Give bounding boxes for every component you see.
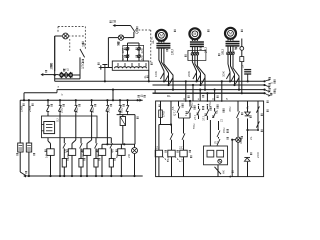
node bbox=[206, 92, 208, 94]
contact 3ZC bbox=[121, 54, 129, 61]
label U bbox=[270, 82, 274, 84]
label 2YH bbox=[208, 102, 212, 107]
wire bbox=[159, 48, 173, 90]
lamp HL1 bbox=[63, 33, 69, 39]
label 2XD bbox=[256, 151, 260, 158]
contact 2SJ bbox=[58, 100, 63, 176]
wire bbox=[241, 62, 243, 94]
capacitor 1RB bbox=[18, 143, 23, 152]
branch wire bbox=[19, 100, 21, 143]
label specks tl bbox=[45, 42, 84, 72]
terminal arrow bbox=[41, 73, 59, 76]
control rail bottom bbox=[27, 175, 143, 177]
label specks coils bbox=[165, 151, 193, 158]
svg-text:2B: 2B bbox=[112, 20, 117, 24]
resistor 3R bbox=[94, 138, 99, 176]
node bbox=[28, 175, 136, 177]
wire bbox=[248, 129, 260, 131]
label specks cluster bbox=[182, 104, 225, 118]
drop wire bbox=[214, 90, 216, 101]
label specks drops bbox=[159, 96, 219, 107]
label 2DK bbox=[187, 71, 191, 77]
heater FR3 bbox=[226, 42, 240, 46]
label 4YH bbox=[228, 107, 232, 112]
coil 5CJ bbox=[118, 149, 125, 156]
label specks bus end bbox=[269, 78, 276, 96]
node bbox=[263, 80, 265, 94]
svg-text:2ZJ: 2ZJ bbox=[180, 156, 184, 162]
label 4L bbox=[140, 94, 144, 98]
wire bbox=[247, 119, 249, 153]
transformer T2 winding bbox=[115, 63, 147, 68]
svg-text:DL: DL bbox=[167, 94, 171, 98]
svg-text:GZ: GZ bbox=[214, 141, 218, 145]
contact QTJ bbox=[172, 101, 180, 118]
svg-text:1ZJ: 1ZJ bbox=[166, 156, 170, 162]
contact 8SJ bbox=[256, 106, 259, 127]
contact ZJ1 bbox=[170, 131, 173, 150]
svg-text:TA: TA bbox=[171, 106, 175, 110]
bus N bbox=[153, 92, 265, 94]
label 1RJ bbox=[171, 49, 175, 55]
label 7L bbox=[246, 105, 250, 109]
fuse 2RD bbox=[120, 115, 125, 145]
node bbox=[189, 100, 191, 102]
node bbox=[54, 74, 56, 76]
node bbox=[246, 129, 248, 131]
label 5YH bbox=[192, 124, 196, 129]
label XD bbox=[117, 41, 121, 46]
control box bbox=[156, 101, 264, 177]
wire bbox=[160, 118, 162, 125]
svg-text:M: M bbox=[160, 33, 163, 37]
wire bbox=[209, 120, 211, 146]
svg-text:6L: 6L bbox=[150, 36, 154, 40]
svg-text:6YH: 6YH bbox=[222, 128, 226, 133]
node bbox=[170, 123, 172, 125]
wire bbox=[112, 89, 114, 102]
wire bbox=[171, 157, 173, 177]
contact group box bbox=[123, 45, 144, 61]
label 1TC bbox=[81, 62, 85, 69]
contact 4ZC bbox=[137, 54, 144, 61]
svg-text:6SJ: 6SJ bbox=[119, 107, 123, 113]
label 1ZJ bbox=[166, 156, 170, 162]
node bbox=[163, 80, 174, 90]
drop wire bbox=[221, 81, 223, 101]
node bbox=[185, 100, 223, 102]
svg-text:M: M bbox=[229, 31, 232, 35]
svg-text:4YH: 4YH bbox=[228, 107, 232, 112]
svg-text:2SJ: 2SJ bbox=[59, 107, 63, 113]
wire bbox=[107, 38, 109, 68]
contact 4TJ bbox=[213, 108, 216, 118]
motor M2 bbox=[189, 28, 200, 39]
wire bbox=[86, 155, 88, 176]
label 3 bbox=[212, 97, 214, 101]
label 2B bbox=[112, 20, 117, 24]
svg-text:SJ: SJ bbox=[56, 118, 60, 122]
svg-text:4SJ: 4SJ bbox=[91, 107, 95, 113]
svg-text:2DK: 2DK bbox=[187, 71, 191, 77]
contact 2C-1 bbox=[191, 46, 194, 55]
label 6YH bbox=[222, 128, 226, 133]
contact 4SJ bbox=[90, 100, 95, 140]
wire bbox=[247, 101, 249, 112]
wire bbox=[28, 152, 30, 176]
label 2C bbox=[66, 153, 70, 158]
label 0 bbox=[184, 97, 186, 101]
wire bbox=[50, 155, 52, 176]
control rail top bbox=[20, 99, 143, 101]
contact 2TJ bbox=[193, 106, 200, 120]
svg-text:7L: 7L bbox=[246, 105, 250, 109]
drop wire bbox=[185, 81, 187, 101]
label TA bbox=[171, 106, 175, 110]
transformer T2 box bbox=[112, 61, 149, 70]
svg-text:5SJ: 5SJ bbox=[107, 107, 111, 113]
wire bbox=[159, 125, 161, 151]
label 3DK bbox=[222, 71, 226, 77]
node bbox=[192, 84, 194, 86]
wire bbox=[120, 144, 122, 149]
switch SA2 bbox=[131, 26, 135, 38]
wire bbox=[158, 157, 160, 177]
dashed enclosure bbox=[58, 27, 85, 53]
motor M3 bbox=[225, 28, 236, 39]
label YA bbox=[215, 110, 219, 114]
label 1 bbox=[198, 97, 200, 101]
terminal bbox=[99, 65, 113, 69]
wire bbox=[74, 74, 80, 76]
diode VD3 bbox=[244, 157, 250, 161]
node bbox=[28, 99, 30, 101]
contact 1SJ bbox=[46, 100, 49, 116]
svg-text:2TC: 2TC bbox=[50, 62, 54, 69]
bus W bbox=[24, 90, 265, 93]
wire bbox=[135, 115, 139, 145]
coil 2CJ bbox=[68, 149, 75, 156]
transistor V bbox=[218, 159, 222, 163]
label specks diag bbox=[227, 113, 263, 155]
svg-text:3SJ: 3SJ bbox=[75, 107, 79, 113]
wire bbox=[108, 37, 118, 39]
wire bbox=[171, 125, 173, 132]
label ZJ bbox=[220, 118, 224, 122]
wire bbox=[120, 155, 122, 176]
label specks bbox=[58, 86, 64, 97]
label 4C bbox=[96, 153, 100, 158]
bus terminals bbox=[265, 78, 271, 96]
switch blade bbox=[215, 167, 231, 178]
svg-text:XD: XD bbox=[117, 41, 121, 46]
diode VD1 bbox=[245, 112, 251, 116]
node bbox=[104, 80, 106, 82]
label 5 bbox=[226, 97, 228, 101]
svg-text:2RB: 2RB bbox=[28, 106, 32, 112]
label 5C bbox=[115, 153, 119, 158]
node bbox=[214, 89, 216, 91]
contact ZJ2 bbox=[182, 131, 185, 150]
drop wire bbox=[192, 85, 194, 101]
wire bbox=[71, 155, 73, 176]
contact 6SJ bbox=[118, 100, 123, 114]
svg-text:ZL: ZL bbox=[249, 136, 253, 140]
wire bbox=[159, 40, 164, 42]
contact 1ZC bbox=[121, 47, 129, 54]
wire bbox=[102, 144, 107, 149]
svg-text:3DK: 3DK bbox=[222, 71, 226, 77]
terminal arrow bbox=[113, 24, 131, 27]
fuse block RD bbox=[244, 70, 251, 82]
contact 3TJ bbox=[202, 106, 209, 121]
node bbox=[229, 80, 240, 90]
module A bbox=[207, 150, 214, 157]
capacitor 2RB bbox=[26, 143, 31, 152]
wire bbox=[237, 101, 239, 112]
wire bbox=[55, 35, 63, 37]
wire bbox=[241, 50, 243, 56]
heater FR1 bbox=[156, 44, 170, 48]
svg-text:3RJ: 3RJ bbox=[221, 49, 225, 55]
contact 2C-3 bbox=[196, 46, 199, 55]
label 1RB bbox=[19, 106, 23, 112]
wire bbox=[154, 90, 156, 94]
node bbox=[47, 99, 49, 101]
wire bbox=[257, 101, 259, 130]
label specks ladder bbox=[23, 104, 125, 106]
svg-text:HK: HK bbox=[222, 170, 226, 174]
bus U bbox=[55, 80, 265, 82]
wire bbox=[134, 154, 136, 177]
wire bbox=[241, 39, 243, 47]
link wire bbox=[106, 143, 135, 145]
svg-text:1ZJ: 1ZJ bbox=[155, 146, 161, 150]
wire bbox=[170, 101, 172, 125]
svg-text:1YH: 1YH bbox=[190, 103, 194, 108]
label 1L bbox=[151, 40, 155, 44]
node bbox=[119, 99, 121, 101]
label ZL bbox=[249, 136, 253, 140]
wire bbox=[247, 162, 249, 177]
label JX bbox=[241, 65, 245, 68]
svg-text:2XD: 2XD bbox=[256, 151, 260, 158]
component XL bbox=[240, 57, 244, 62]
meter PA bbox=[240, 47, 244, 51]
wire bbox=[183, 157, 185, 177]
time relay box bbox=[42, 116, 98, 138]
label QA bbox=[135, 28, 139, 34]
coil 3ZC bbox=[179, 146, 187, 157]
wire bbox=[228, 38, 233, 40]
relay core bbox=[44, 122, 55, 134]
module B bbox=[217, 150, 224, 157]
node bbox=[59, 99, 61, 101]
svg-text:1B: 1B bbox=[82, 42, 86, 47]
contact 3C bbox=[226, 46, 234, 55]
label 2RJ bbox=[204, 47, 208, 53]
switch 3DK bbox=[226, 73, 239, 85]
label 3XD bbox=[239, 137, 243, 144]
node bbox=[241, 92, 243, 94]
wire bbox=[179, 116, 191, 118]
node bbox=[247, 80, 249, 82]
wire bbox=[87, 140, 92, 149]
label 1YH bbox=[190, 103, 194, 108]
wire bbox=[128, 43, 140, 61]
wire bbox=[117, 114, 135, 116]
fuse 1RD bbox=[159, 110, 166, 118]
label specks rails bbox=[25, 76, 234, 173]
wire bbox=[134, 144, 136, 147]
wire bbox=[160, 101, 162, 110]
contact 2ZC bbox=[137, 47, 144, 54]
label 2TC bbox=[50, 62, 54, 69]
wire bbox=[97, 137, 111, 139]
label 2R1 bbox=[143, 75, 147, 79]
small node bbox=[198, 104, 209, 106]
node bbox=[91, 99, 93, 101]
wire bbox=[101, 155, 103, 176]
node bbox=[148, 80, 150, 82]
contact 2C-2 bbox=[193, 46, 196, 55]
svg-text:2ZJ: 2ZJ bbox=[179, 146, 185, 150]
svg-text:M: M bbox=[193, 32, 196, 36]
svg-text:JX: JX bbox=[241, 65, 245, 68]
node bbox=[221, 80, 223, 82]
svg-text:2TJ: 2TJ bbox=[193, 114, 197, 120]
label specks motor bbox=[166, 30, 243, 57]
wire bbox=[55, 36, 80, 81]
label 3C bbox=[81, 153, 85, 158]
relay links bbox=[42, 118, 60, 131]
svg-text:2YH: 2YH bbox=[208, 102, 212, 107]
svg-text:2ZC: 2ZC bbox=[140, 47, 144, 54]
node bbox=[185, 80, 187, 82]
dashed border bbox=[135, 30, 151, 62]
wire bbox=[192, 55, 205, 89]
coil 1ZC bbox=[155, 146, 163, 157]
resistor 4R bbox=[109, 138, 114, 176]
contact 1TJ bbox=[184, 101, 192, 116]
lamp HL4 bbox=[231, 137, 241, 177]
switch SA1 bbox=[80, 49, 85, 57]
svg-text:3TJ: 3TJ bbox=[202, 115, 206, 121]
label specks tm bbox=[98, 21, 153, 65]
wire bbox=[148, 70, 150, 81]
resistor 1R bbox=[62, 138, 67, 176]
wire bbox=[48, 138, 51, 149]
ground T bbox=[102, 65, 107, 82]
svg-text:QA: QA bbox=[135, 28, 139, 34]
node bbox=[195, 80, 206, 90]
label 6L bbox=[150, 36, 154, 40]
resistor 2R bbox=[79, 138, 84, 176]
label W bbox=[270, 93, 274, 96]
node bbox=[75, 99, 77, 101]
wire bbox=[237, 142, 239, 176]
contact 3SJ bbox=[74, 100, 79, 140]
svg-text:1RB: 1RB bbox=[19, 106, 23, 112]
bus V bbox=[153, 84, 265, 86]
label 1C bbox=[44, 153, 48, 158]
wire bbox=[72, 140, 76, 149]
contactor 2C box bbox=[188, 51, 206, 61]
label specks ladder2 bbox=[16, 150, 118, 160]
svg-text:2L: 2L bbox=[143, 75, 147, 79]
contact 7SJ bbox=[126, 99, 129, 115]
label V bbox=[274, 88, 278, 90]
drop wire bbox=[206, 93, 208, 101]
drop wire bbox=[199, 90, 201, 101]
motor M1 bbox=[156, 30, 167, 41]
coil 4CJ bbox=[98, 149, 105, 156]
wire bbox=[79, 57, 81, 79]
rail arrow bbox=[23, 174, 26, 177]
node bbox=[106, 99, 108, 101]
switch 2DK bbox=[193, 73, 205, 85]
lamp HL2 bbox=[118, 35, 123, 40]
label 3RJ bbox=[221, 49, 225, 55]
rail arrow bbox=[137, 96, 146, 102]
label specks right edge bbox=[267, 101, 269, 112]
node bbox=[199, 89, 201, 91]
label 2ZJ bbox=[180, 156, 184, 162]
interlock linkage bbox=[163, 157, 182, 163]
svg-text:4L: 4L bbox=[140, 94, 144, 98]
coil 1CJ bbox=[47, 149, 54, 156]
wire bbox=[124, 37, 134, 39]
label DL bbox=[167, 94, 171, 98]
wire bbox=[179, 118, 184, 131]
label 2RB bbox=[28, 106, 32, 112]
wire bbox=[54, 36, 56, 71]
node bbox=[23, 99, 25, 101]
contact 5SJ bbox=[106, 100, 111, 144]
wire bbox=[192, 39, 197, 41]
wire bbox=[161, 124, 172, 126]
contact 5TJ bbox=[237, 111, 240, 136]
heater FR2 bbox=[190, 42, 204, 46]
coil 3CJ bbox=[83, 149, 90, 156]
label GZ bbox=[214, 141, 218, 145]
coil 2ZC bbox=[168, 150, 175, 157]
wire bbox=[20, 152, 26, 176]
svg-text:4ZC: 4ZC bbox=[140, 54, 144, 61]
svg-text:5YH: 5YH bbox=[192, 124, 196, 129]
contact GZ blades bbox=[217, 121, 220, 146]
label 1B bbox=[82, 42, 86, 47]
wire bbox=[228, 55, 239, 90]
transformer T1 bbox=[59, 68, 74, 78]
label PJ bbox=[234, 46, 238, 50]
svg-text:1DK: 1DK bbox=[154, 71, 158, 77]
svg-text:YA: YA bbox=[215, 110, 219, 114]
lamp HL3 bbox=[127, 148, 137, 159]
wire bbox=[217, 165, 219, 177]
svg-text:1TC: 1TC bbox=[81, 62, 85, 69]
branch wire bbox=[28, 100, 30, 143]
switch 1DK bbox=[154, 71, 173, 84]
rectifier box bbox=[204, 146, 228, 165]
svg-text:1RJ: 1RJ bbox=[171, 49, 175, 55]
svg-text:1RD: 1RD bbox=[161, 110, 165, 117]
wire bbox=[23, 93, 25, 100]
